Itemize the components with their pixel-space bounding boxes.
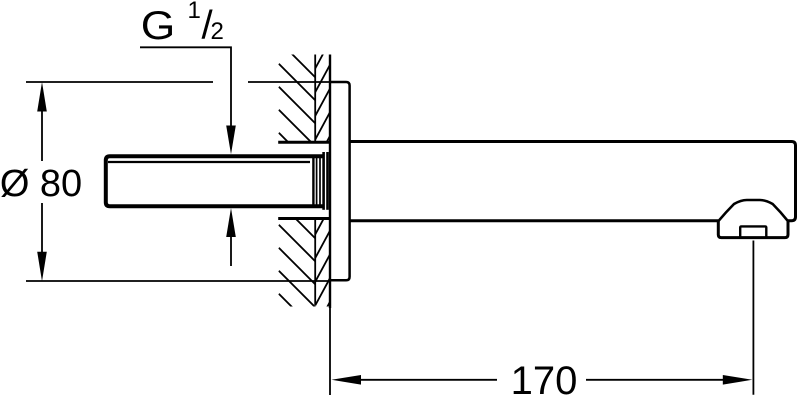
svg-text:1: 1 <box>188 0 201 24</box>
svg-text:Ø 80: Ø 80 <box>0 163 82 205</box>
svg-text:G: G <box>141 3 176 47</box>
svg-text:2: 2 <box>211 18 224 45</box>
svg-text:170: 170 <box>511 359 578 397</box>
